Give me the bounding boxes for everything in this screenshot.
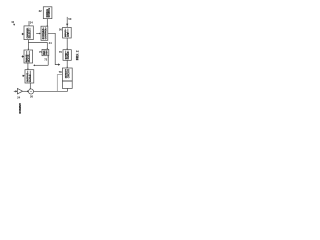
- svg-text:CIRCUIT: CIRCUIT: [68, 68, 70, 78]
- svg-text:SOURCE: SOURCE: [49, 7, 51, 17]
- box L2: [24, 50, 33, 63]
- wire loop R3 left: [57, 75, 62, 92]
- mixer circle: [28, 89, 33, 94]
- svg-text:IF INPUT: IF INPUT: [19, 103, 22, 114]
- box R2: [63, 50, 71, 61]
- arrow into L3 left: [22, 75, 25, 77]
- box A channel select: [24, 26, 33, 40]
- leader arrow 10: [11, 20, 15, 26]
- wire up into M2 bottom: [33, 56, 49, 66]
- box M2: [42, 49, 49, 55]
- wire triangle to circle: [23, 90, 29, 92]
- svg-text:FIG. 2: FIG. 2: [76, 50, 80, 60]
- svg-text:56: 56: [59, 27, 62, 31]
- box R1: [63, 27, 72, 38]
- svg-text:10: 10: [11, 20, 14, 24]
- wire L2 to L3: [27, 63, 29, 70]
- wire L3 to circle: [30, 83, 32, 89]
- svg-text:50: 50: [68, 17, 71, 21]
- box R4: [62, 81, 72, 88]
- wire bus bottom: [34, 88, 68, 91]
- svg-text:70: 70: [39, 50, 42, 54]
- svg-text:CONTROL: CONTROL: [45, 27, 47, 39]
- wire R1 input: [66, 17, 68, 28]
- wire M1 right to arrow: [48, 33, 60, 66]
- wire input stub: [14, 90, 17, 92]
- box R3: [62, 68, 72, 81]
- wire stub into A top: [28, 21, 30, 26]
- svg-text:AMP: AMP: [67, 32, 70, 37]
- svg-text:24: 24: [17, 95, 20, 99]
- svg-text:MODUL: MODUL: [29, 53, 31, 62]
- amplifier triangle: [17, 89, 22, 94]
- svg-text:72: 72: [44, 58, 47, 62]
- svg-text:26: 26: [30, 95, 33, 99]
- svg-text:76: 76: [59, 50, 62, 54]
- svg-text:OSC: OSC: [46, 50, 48, 55]
- box L3: [25, 70, 34, 83]
- svg-text:SELECT: SELECT: [30, 29, 32, 39]
- svg-text:44: 44: [49, 41, 52, 45]
- wire A bottom to L2: [28, 40, 30, 50]
- box T1 signal source: [43, 7, 52, 19]
- wire R2 to R3: [66, 60, 68, 68]
- box M1 synthesizer: [41, 26, 48, 40]
- svg-text:34: 34: [30, 21, 33, 25]
- svg-text:FILTER: FILTER: [30, 74, 32, 82]
- wire A to M1: [36, 33, 41, 35]
- wire R1 to R2: [66, 38, 68, 50]
- wire T1 to M1: [47, 19, 49, 27]
- IF INPUT rotated label: [19, 103, 21, 113]
- svg-text:32: 32: [39, 9, 42, 13]
- wire branch to M2 top: [28, 43, 48, 50]
- svg-text:FILTER: FILTER: [68, 51, 70, 59]
- svg-text:78: 78: [59, 70, 62, 74]
- arrow into A left: [22, 33, 24, 35]
- arrow into L2 left: [22, 55, 24, 57]
- FIG. 2 label: [76, 54, 78, 55]
